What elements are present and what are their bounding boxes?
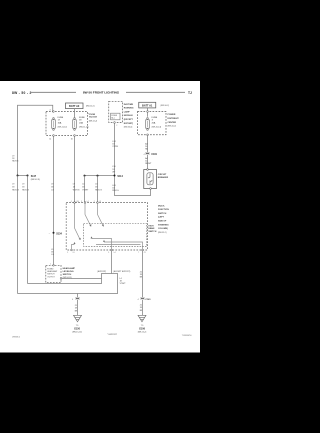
svg-text:FUSE: FUSE — [89, 114, 95, 116]
ground G111 — [138, 315, 146, 322]
svg-text:COLUMN): COLUMN) — [158, 228, 168, 230]
svg-text:(8W-11-14): (8W-11-14) — [79, 126, 89, 128]
wire MFS pin 9 down to T junction — [111, 251, 113, 274]
svg-text:RUNNING: RUNNING — [124, 108, 134, 110]
svg-text:SWITCH: SWITCH — [63, 274, 72, 276]
fuse block bottom pins — [53, 135, 55, 137]
svg-text:LAMP: LAMP — [124, 110, 131, 113]
svg-text:BEAM: BEAM — [148, 227, 154, 230]
svg-text:BATT A1: BATT A1 — [142, 105, 153, 108]
wire label A4 below C181 — [147, 155, 149, 170]
BATT A0 feed box — [66, 103, 84, 109]
svg-text:(8W-53-2): (8W-53-2) — [158, 232, 167, 234]
svg-text:RD/WT: RD/WT — [145, 163, 152, 165]
svg-text:VT/RD: VT/RD — [112, 146, 118, 148]
svg-text:CIRCUIT: CIRCUIT — [158, 174, 167, 176]
wire C110 to ground — [77, 300, 79, 316]
except export branch — [18, 274, 118, 294]
power distribution center dashed box — [138, 112, 167, 135]
svg-text:20A: 20A — [79, 121, 83, 124]
svg-text:POWER: POWER — [168, 114, 176, 116]
wire PDC fuse to C181 — [147, 136, 149, 153]
svg-text:L50: L50 — [112, 166, 115, 168]
svg-text:(8W-15-2): (8W-15-2) — [138, 332, 147, 334]
wire BATT A0 to fuse 18 — [74, 109, 76, 118]
svg-text:Z1: Z1 — [75, 305, 77, 307]
DRL internal box — [111, 113, 120, 120]
svg-text:G106: G106 — [139, 327, 146, 330]
MFS top pins — [74, 202, 76, 204]
svg-text:RD/OG: RD/OG — [112, 190, 119, 192]
svg-text:(EXPORT): (EXPORT) — [97, 271, 106, 273]
wire MFS pin 7 down — [142, 251, 144, 297]
svg-text:(8W-50-11): (8W-50-11) — [63, 277, 73, 279]
svg-text:S114: S114 — [117, 175, 123, 178]
svg-text:TJ988W50: TJ988W50 — [182, 335, 193, 337]
svg-text:8W-50 FRONT LIGHTING: 8W-50 FRONT LIGHTING — [83, 91, 120, 95]
svg-text:SIDE OF: SIDE OF — [158, 221, 167, 223]
svg-text:Z1: Z1 — [144, 252, 146, 254]
page background — [0, 81, 200, 353]
wire from fuse block pin routed left — [18, 105, 53, 175]
svg-text:1: 1 — [50, 264, 51, 266]
svg-text:(8W-50-11): (8W-50-11) — [31, 179, 41, 181]
wire DRL module to S114 — [114, 124, 116, 176]
svg-text:4: 4 — [138, 299, 139, 301]
svg-text:EXPORT): EXPORT) — [124, 123, 134, 125]
svg-text:3: 3 — [81, 201, 82, 203]
multi-function switch dashed box — [66, 203, 147, 251]
BATT A1 feed box — [139, 102, 156, 108]
svg-text:DAYTIME: DAYTIME — [124, 103, 134, 106]
svg-text:L4: L4 — [87, 201, 89, 203]
MFS bottom pins — [71, 249, 73, 251]
svg-text:* EXPORT: * EXPORT — [107, 334, 117, 336]
pin 4 at fuse block top — [53, 111, 55, 113]
svg-text:LEVELING: LEVELING — [63, 271, 74, 273]
svg-text:8W - 50 - 2: 8W - 50 - 2 — [12, 91, 32, 95]
svg-text:RD/OG: RD/OG — [95, 189, 102, 191]
svg-text:BLOCK: BLOCK — [89, 117, 97, 119]
svg-text:FUSE: FUSE — [152, 117, 158, 119]
svg-text:HEADLAMP: HEADLAMP — [63, 267, 76, 270]
fuse 17 (left fuse) — [52, 118, 56, 131]
svg-text:FUSE: FUSE — [79, 117, 85, 119]
svg-text:18: 18 — [140, 307, 142, 309]
high beam switch dashed sub-box — [84, 224, 147, 247]
svg-text:RD/OG: RD/OG — [12, 189, 19, 191]
svg-text:SWITCH: SWITCH — [148, 231, 156, 233]
svg-text:9: 9 — [108, 252, 109, 254]
svg-text:A4: A4 — [145, 157, 147, 160]
svg-text:L4: L4 — [114, 252, 116, 254]
wire S114 to MFS pin 2 — [84, 176, 86, 203]
header rule left — [30, 91, 76, 93]
svg-text:HEADLAMP: HEADLAMP — [47, 270, 58, 273]
wire BATT A1 to PDC fuse — [147, 108, 149, 117]
svg-text:5: 5 — [67, 252, 68, 254]
svg-text:16: 16 — [71, 138, 73, 140]
header rule right — [126, 91, 185, 93]
svg-text:4: 4 — [71, 201, 72, 203]
svg-text:C181: C181 — [151, 154, 157, 156]
PDC bottom pin — [147, 134, 149, 136]
svg-text:WT/OG: WT/OG — [73, 189, 80, 191]
svg-text:VT/WT: VT/WT — [82, 189, 89, 191]
svg-text:18: 18 — [112, 169, 114, 171]
svg-text:RD/OG: RD/OG — [12, 161, 19, 163]
svg-text:MODULE: MODULE — [124, 115, 134, 117]
svg-text:(EXCEPT: (EXCEPT — [124, 119, 134, 121]
svg-text:14: 14 — [49, 138, 51, 140]
svg-text:7: 7 — [138, 252, 139, 254]
breaker symbol — [147, 173, 153, 185]
svg-text:VT/WT: VT/WT — [120, 283, 127, 285]
daytime running lamp module dashed box — [109, 101, 123, 122]
svg-text:FUSED: FUSED — [47, 268, 54, 270]
svg-text:TJ: TJ — [188, 91, 192, 95]
svg-text:4: 4 — [72, 299, 73, 301]
svg-text:OUTPUT: OUTPUT — [47, 276, 55, 278]
svg-text:RD/OG: RD/OG — [22, 189, 29, 191]
svg-text:FUNCTION: FUNCTION — [158, 209, 169, 211]
leveling switch side wire — [61, 278, 102, 280]
splice S114 — [85, 175, 115, 177]
splice S117 — [18, 175, 28, 177]
connector C161 — [141, 297, 144, 299]
svg-text:(EXCEPT EXPORT): (EXCEPT EXPORT) — [113, 271, 130, 273]
DRL bottom pin — [114, 122, 116, 124]
fuse 18 (right fuse) — [73, 118, 77, 131]
svg-text:FUSE: FUSE — [58, 117, 64, 119]
svg-text:2: 2 — [94, 201, 95, 203]
svg-text:Z1: Z1 — [140, 304, 142, 306]
svg-text:(8W-50-6): (8W-50-6) — [124, 127, 133, 129]
headlamp leveling switch dashed box — [46, 265, 61, 282]
svg-text:BATT A0: BATT A0 — [69, 105, 80, 108]
svg-text:4: 4 — [50, 110, 51, 112]
fuse block label — [88, 113, 90, 115]
wire S114 to MFS pin 3 — [97, 176, 99, 203]
svg-text:CENTER: CENTER — [168, 122, 177, 124]
svg-text:SWITCH: SWITCH — [47, 274, 55, 276]
export branch — [28, 274, 112, 284]
wire S117 right branch down — [27, 176, 29, 284]
svg-text:(8W-12-2): (8W-12-2) — [89, 121, 98, 123]
svg-text:20A: 20A — [152, 121, 156, 124]
svg-text:(8W-10-2): (8W-10-2) — [168, 126, 177, 128]
svg-text:B(+): B(+) — [111, 118, 115, 120]
svg-text:4: 4 — [144, 154, 145, 156]
fuse block dashed box — [46, 112, 88, 136]
svg-text:DISTRIBUT.: DISTRIBUT. — [168, 118, 180, 120]
svg-text:18: 18 — [75, 308, 77, 310]
svg-text:G150: G150 — [74, 327, 81, 330]
circuit breaker box — [144, 170, 157, 189]
connector C181 — [146, 152, 149, 154]
PDC fuse 3 — [146, 118, 150, 131]
svg-text:STEERING: STEERING — [158, 224, 169, 226]
svg-text:(8W-15-10): (8W-15-10) — [72, 332, 82, 334]
wire fuse 17 to S135 — [53, 137, 55, 266]
wire circuit breaker to S114 — [115, 176, 151, 196]
svg-text:(8W-10-2): (8W-10-2) — [161, 105, 170, 107]
ground G102 — [74, 315, 82, 322]
svg-text:(LEFT: (LEFT — [158, 217, 165, 219]
MFS interior switches — [72, 203, 143, 249]
svg-text:LG: LG — [51, 189, 54, 191]
svg-text:L3: L3 — [99, 201, 101, 203]
svg-text:(8W-10-2): (8W-10-2) — [86, 105, 95, 107]
svg-text:10A: 10A — [58, 121, 62, 124]
splice S135 — [53, 232, 55, 234]
connector C110 — [76, 297, 79, 299]
svg-text:S134: S134 — [56, 232, 62, 235]
svg-text:BREAKER: BREAKER — [158, 176, 169, 179]
svg-text:SWITCH: SWITCH — [158, 213, 167, 215]
svg-text:HIGH: HIGH — [148, 225, 154, 227]
svg-text:2: 2 — [116, 125, 117, 127]
svg-text:L50: L50 — [76, 201, 79, 203]
wire S117 left branch down — [17, 176, 19, 294]
svg-text:J988W-2: J988W-2 — [12, 336, 21, 338]
svg-text:(8W-10-14): (8W-10-14) — [152, 126, 162, 128]
svg-text:MULTI-: MULTI- — [158, 205, 165, 207]
svg-text:C161: C161 — [145, 299, 151, 301]
svg-text:S117: S117 — [31, 175, 37, 178]
ground drop from except-export run — [77, 294, 79, 298]
svg-text:L9: L9 — [73, 252, 75, 254]
svg-text:A4: A4 — [145, 142, 147, 145]
wire fuse 18 to multi-function switch — [74, 137, 76, 203]
wire C161 to ground — [142, 300, 144, 316]
svg-text:(8W-11-12): (8W-11-12) — [58, 126, 68, 128]
